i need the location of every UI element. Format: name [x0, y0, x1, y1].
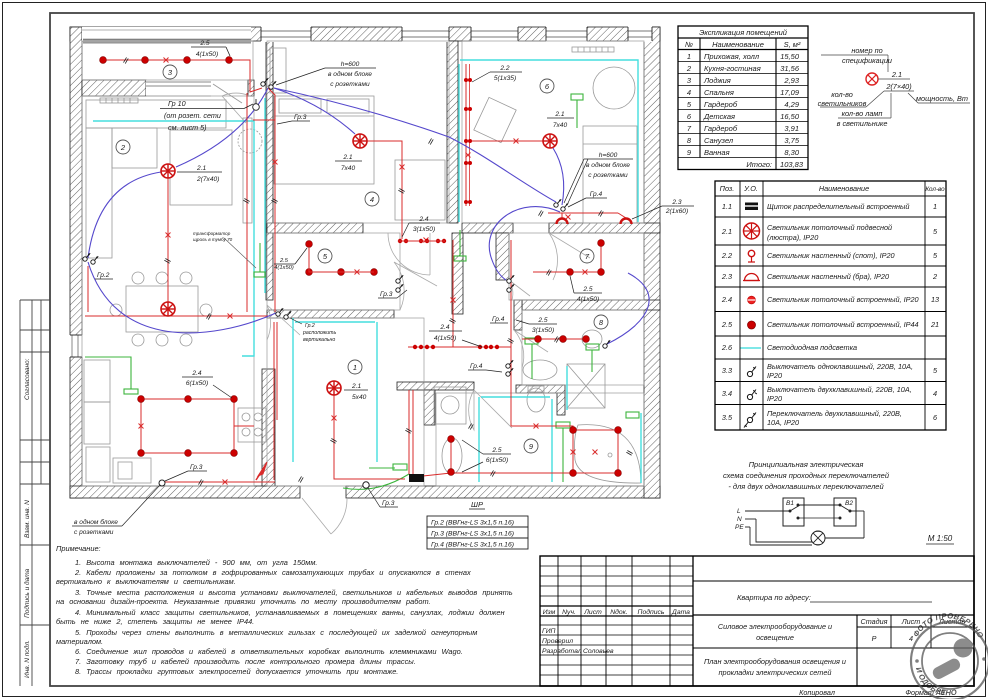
svg-text:- для двух одноклавишных перек: - для двух одноклавишных переключателей [728, 482, 884, 491]
door bottom balcony [302, 498, 347, 534]
svg-text:щроль в тумбу 70: щроль в тумбу 70 [193, 237, 233, 242]
svg-text:Копировал: Копировал [799, 688, 835, 697]
wire Gr2 riser room2 side [246, 93, 248, 312]
schematic lamp [811, 531, 825, 545]
svg-text:Гр 10: Гр 10 [168, 99, 186, 108]
lustre lamp room6 2.1 [543, 134, 557, 148]
svg-text:4. Минимальный класс защиты: 4. Минимальный класс защиты светильников… [75, 608, 505, 617]
switch pair left wall Gr.2 [83, 253, 90, 261]
svg-text:2.3: 2.3 [671, 199, 681, 206]
svg-text:Кол-во: Кол-во [925, 186, 945, 193]
legend symbol: downlight IP44 2.5 [748, 321, 756, 329]
arc sw-left to dining [88, 262, 276, 333]
led tv wall second strip [264, 98, 266, 293]
L N PE labels [735, 508, 744, 531]
svg-text:Гр.2: Гр.2 [305, 323, 315, 329]
arc room6 sw long S [489, 207, 560, 280]
wall rooms 4/6 [447, 41, 458, 223]
socket pairs room6 [398, 78, 499, 349]
svg-text:прокладки электрических сетей: прокладки электрических сетей [719, 668, 832, 677]
sofa room2 [86, 100, 226, 128]
junction circle kitchen [159, 480, 165, 486]
svg-text:Прихожая, холл: Прихожая, холл [704, 52, 760, 61]
svg-text:4(1х50): 4(1х50) [274, 265, 294, 271]
svg-text:Наименование: Наименование [819, 184, 869, 193]
svg-text:Стадия: Стадия [861, 617, 888, 626]
window left wall [70, 335, 82, 357]
switch box B2 [834, 498, 856, 526]
switch pair bath Gr.4 [506, 360, 513, 368]
door main hall gap [267, 305, 300, 340]
legend symbol: downlight IP20 2.4 [748, 296, 756, 304]
switches [83, 78, 610, 376]
wall washbasin/toilet [516, 385, 565, 393]
wire room9 rect [573, 430, 618, 473]
svg-text:3(1х50): 3(1х50) [413, 226, 435, 233]
arc sw-top to lustre room4 [274, 88, 355, 134]
svg-text:быть не ниже 2, степень защиты: быть не ниже 2, степень защиты не менее … [56, 617, 254, 626]
green tv lowvolt [259, 243, 261, 272]
svg-text:в одном блоке: в одном блоке [586, 161, 630, 169]
svg-text:4: 4 [370, 195, 374, 204]
svg-text:с розетками: с розетками [330, 81, 370, 88]
svg-text:2.1: 2.1 [554, 111, 564, 118]
svg-text:Выключатель двухклавишный, 220: Выключатель двухклавишный, 220В, 10А, [767, 385, 912, 394]
svg-text:Гр.2 (ВВГнг-LS 3х1,5 п.16): Гр.2 (ВВГнг-LS 3х1,5 п.16) [431, 520, 514, 527]
wire room6 lustre [470, 140, 543, 142]
left margin strip [20, 300, 50, 686]
svg-text:Спальня: Спальня [704, 88, 734, 97]
svg-text:h=600: h=600 [341, 61, 360, 68]
door room5 [394, 262, 437, 310]
wire gr2 vertical pair [273, 322, 275, 480]
junction circle hall [363, 482, 369, 488]
svg-text:Лист: Лист [583, 609, 602, 616]
wire room6 sconces [548, 212, 618, 214]
svg-text:2: 2 [120, 143, 126, 152]
svg-text:N: N [737, 516, 742, 523]
svg-text:Подпись и дата: Подпись и дата [23, 568, 31, 618]
led bath [478, 397, 480, 482]
green corridor [459, 230, 461, 256]
corner tub [574, 425, 641, 483]
svg-text:103,83: 103,83 [780, 160, 804, 169]
svg-text:см. лист 5): см. лист 5) [168, 123, 207, 132]
svg-text:Светильник потолочный встроенн: Светильник потолочный встроенный, IP44 [767, 320, 919, 329]
bed room4 [274, 96, 374, 184]
svg-text:2.1: 2.1 [891, 70, 902, 79]
wire left wall horizontal [85, 315, 270, 317]
switch pair room6 Gr.4 [554, 199, 561, 207]
svg-text:1.1: 1.1 [722, 202, 732, 211]
led room2 [93, 121, 254, 356]
wire room7 [533, 243, 601, 272]
green room9 [562, 428, 564, 482]
svg-text:(от розет. сети: (от розет. сети [164, 111, 221, 120]
svg-text:Изм: Изм [543, 609, 556, 616]
svg-text:2.5: 2.5 [279, 258, 289, 264]
svg-text:Принципиальная электрическая: Принципиальная электрическая [749, 460, 864, 469]
svg-text:на основании дизайн-проекта. Н: на основании дизайн-проекта. Неуказанные… [56, 597, 431, 606]
desk room6 [474, 97, 516, 142]
svg-text:10А, IP20: 10А, IP20 [767, 418, 799, 427]
svg-text:21: 21 [930, 320, 939, 329]
legend symbol: LED strip 2.6 [741, 347, 762, 349]
svg-text:4: 4 [909, 634, 913, 643]
legend symbol: 1-key switch 3.3 [747, 367, 756, 377]
svg-text:5(1х35): 5(1х35) [494, 75, 516, 82]
stamp camera icon [931, 639, 973, 681]
svg-text:2.5: 2.5 [582, 286, 592, 293]
svg-text:кол-во: кол-во [831, 90, 853, 99]
svg-text:2: 2 [686, 64, 692, 73]
wire room2 lustres [167, 178, 169, 302]
wall room4 bottom [267, 223, 363, 233]
svg-text:Гр.4: Гр.4 [492, 316, 505, 323]
wire Gr3 riser [268, 88, 275, 312]
stamp circles [911, 622, 988, 699]
svg-text:7х40: 7х40 [553, 122, 568, 129]
svg-text:Экспликация помещений: Экспликация помещений [699, 28, 788, 37]
wall right exterior [644, 27, 660, 498]
svg-text:8,30: 8,30 [784, 148, 799, 157]
svg-text:(люстра), IP20: (люстра), IP20 [767, 233, 818, 242]
wall room7/room8 [522, 300, 660, 310]
svg-text:8. Трассы прокладки групповых: 8. Трассы прокладки групповых электросет… [75, 667, 398, 676]
svg-text:Гр.2: Гр.2 [97, 272, 110, 279]
svg-text:трансформатор: трансформатор [193, 231, 231, 236]
svg-text:Соловьев: Соловьев [583, 648, 614, 655]
lustre lamp hall 2.1 [327, 381, 341, 395]
svg-text:спецификации: спецификации [842, 56, 892, 65]
wire kitchen island [141, 399, 234, 453]
switch pair room5 door [396, 275, 403, 283]
legend symbol: 2-key pass switch 3.5 [744, 413, 756, 428]
svg-text:Щиток распределительный встрое: Щиток распределительный встроенный [767, 202, 909, 211]
svg-text:с розетками: с розетками [74, 529, 114, 536]
svg-text:В1: В1 [786, 500, 794, 507]
svg-text:Силовое электрооборудование и: Силовое электрооборудование и [718, 622, 832, 631]
switch pair Gr.2 vertical [276, 308, 283, 316]
wall bath left [424, 390, 435, 425]
svg-text:7х40: 7х40 [341, 165, 356, 172]
legend table text [720, 184, 946, 427]
svg-text:31,56: 31,56 [780, 64, 800, 73]
wire 2.4 hall line [408, 346, 511, 348]
svg-text:3.4: 3.4 [722, 389, 732, 398]
svg-text:6(1х50): 6(1х50) [186, 380, 208, 387]
red arrow kitchen [258, 462, 267, 476]
svg-text:Гардероб: Гардероб [704, 124, 738, 133]
blue switch arcs [88, 88, 649, 344]
svg-text:2.4: 2.4 [721, 295, 732, 304]
svg-text:S, м²: S, м² [784, 40, 801, 49]
green wiring [85, 94, 639, 489]
svg-text:2.2: 2.2 [499, 65, 509, 72]
svg-text:Гр.4 (ВВГнг-LS 3х1,5 п.16): Гр.4 (ВВГнг-LS 3х1,5 п.16) [431, 542, 514, 549]
svg-text:2.1: 2.1 [342, 154, 352, 161]
svg-text:В2: В2 [845, 500, 853, 507]
svg-text:Примечание:: Примечание: [56, 544, 101, 553]
schematic contact dots [789, 504, 852, 520]
svg-text:вертикально к выключателям и с: вертикально к выключателям и светильника… [56, 577, 236, 586]
wall toilet right [557, 393, 565, 415]
stove [238, 408, 266, 442]
svg-text:2.4: 2.4 [418, 216, 428, 223]
svg-text:Гр.3: Гр.3 [294, 114, 307, 121]
svg-text:15,50: 15,50 [780, 52, 800, 61]
svg-text:2.4: 2.4 [191, 370, 201, 377]
schematic wires [745, 505, 864, 545]
svg-text:3. Точные места расположени: 3. Точные места расположения и высота ус… [75, 588, 513, 597]
green hall bottom [369, 467, 395, 469]
svg-text:Гр.3: Гр.3 [190, 464, 203, 471]
kitchen counter [84, 360, 110, 402]
svg-text:2.5: 2.5 [721, 320, 733, 329]
svg-text:2.1: 2.1 [721, 227, 732, 236]
svg-text:М 1:50: М 1:50 [928, 534, 953, 543]
svg-text:2(1х60): 2(1х60) [665, 208, 688, 215]
lustre lamp room4 2.1 [353, 134, 367, 148]
wall corridor/room7 [496, 233, 509, 280]
wire room4 lustre drop [367, 141, 402, 239]
svg-text:7. Заготовку труб и кабелей пр: 7. Заготовку труб и кабелей производить … [75, 657, 416, 666]
wall room5 bottom [267, 310, 394, 318]
svg-text:2.5: 2.5 [537, 317, 547, 324]
svg-text:1: 1 [933, 202, 937, 211]
wall stub room8 left [514, 300, 522, 330]
legend symbol: distribution board 1.1 [745, 203, 758, 211]
svg-text:6. Соединение жил проводов и к: 6. Соединение жил проводов и кабелей в о… [75, 647, 463, 656]
svg-text:Поз.: Поз. [720, 184, 735, 193]
towel oval room9 [442, 438, 462, 474]
svg-text:Кухня-гостиная: Кухня-гостиная [704, 64, 761, 73]
svg-text:13: 13 [931, 295, 939, 304]
title block left grid verticals [558, 556, 693, 686]
svg-text:h=600: h=600 [599, 152, 618, 159]
svg-text:PE: PE [735, 524, 744, 531]
svg-text:IP20: IP20 [767, 371, 782, 380]
washing machine [434, 387, 466, 424]
svg-text:освещение: освещение [756, 633, 794, 642]
wall left exterior [70, 27, 82, 498]
radiator room2 [100, 98, 138, 103]
title block outer [540, 556, 974, 686]
switch pair corridor pass [507, 275, 514, 283]
legend symbol: sconce 2.3 [743, 274, 760, 281]
svg-text:Гр.4: Гр.4 [590, 191, 603, 198]
dresser room4 [270, 48, 286, 93]
svg-text:4(1х50): 4(1х50) [434, 335, 456, 342]
svg-text:2.6: 2.6 [721, 343, 733, 352]
distribution board ShchR [409, 474, 424, 482]
sink [113, 458, 151, 483]
red wiring network [85, 60, 626, 482]
green kitchen [85, 357, 131, 389]
title block right part dividers [693, 581, 974, 686]
svg-text:1. Высота монтажа выключателей: 1. Высота монтажа выключателей - 900 мм,… [75, 558, 317, 567]
title header row text [542, 608, 690, 655]
svg-text:в одном блоке: в одном блоке [74, 518, 118, 526]
wire long top link [253, 119, 275, 121]
lustre lamp dining 2.1 [161, 302, 175, 316]
wire room8 [522, 338, 586, 340]
arc bath [607, 273, 649, 344]
svg-text:4(1х50): 4(1х50) [577, 296, 599, 303]
lustre lamp room2 2.1 [161, 164, 175, 178]
svg-text:№: № [685, 40, 693, 49]
wall bath top [397, 382, 474, 390]
annotation text [818, 46, 968, 128]
dining table [126, 286, 198, 332]
green room9 right [626, 412, 639, 418]
svg-text:2.5: 2.5 [199, 40, 209, 47]
svg-text:5. Проходы через стены вып: 5. Проходы через стены выполнить в метал… [75, 628, 477, 637]
svg-text:3.3: 3.3 [722, 366, 732, 375]
svg-text:2: 2 [932, 272, 937, 281]
svg-text:3.5: 3.5 [722, 413, 733, 422]
svg-text:2.1: 2.1 [351, 383, 361, 390]
wire riser pair [408, 390, 410, 474]
svg-text:3,91: 3,91 [784, 124, 799, 133]
svg-text:4(1х50): 4(1х50) [196, 51, 218, 58]
svg-text:Санузел: Санузел [704, 136, 734, 145]
door room7 small [509, 280, 530, 300]
sink room8 [582, 330, 602, 348]
room number circles [116, 65, 608, 453]
svg-text:кол-во ламп: кол-во ламп [842, 109, 883, 118]
svg-text:2,93: 2,93 [783, 76, 799, 85]
title block left grid horizontals [540, 566, 693, 675]
stamp dots [915, 659, 919, 663]
svg-text:Разработал: Разработал [542, 647, 582, 655]
wardrobe room4 [395, 160, 445, 220]
switch room8 [603, 340, 610, 348]
wire room5 L [309, 248, 374, 272]
svg-text:Р: Р [872, 634, 877, 643]
plant [238, 129, 262, 153]
wall corridor central [452, 233, 463, 314]
left strip labels [23, 358, 31, 678]
svg-text:в светильнике: в светильнике [837, 119, 888, 128]
door room6-7 [549, 233, 590, 280]
svg-text:2.1: 2.1 [196, 165, 206, 172]
svg-text:расположить: расположить [302, 330, 336, 336]
bell symbol Gr10 [253, 104, 260, 111]
door balcony [222, 93, 250, 123]
svg-text:Проверил: Проверил [542, 638, 573, 645]
legend symbol: 2-key switch 3.4 [747, 390, 756, 400]
wire central riser [452, 240, 454, 347]
washbasin hall [523, 360, 557, 380]
svg-text:Nдок.: Nдок. [610, 608, 628, 616]
svg-text:Итого:: Итого: [746, 160, 772, 169]
door arcs [222, 93, 590, 534]
svg-text:2. Кабели проложены за пот: 2. Кабели проложены за потолком в гофрир… [74, 568, 471, 577]
arc sw-top to lustre room2 crossing [176, 88, 268, 167]
arc sw-top long to pass switch [274, 88, 556, 202]
switch pair h=600 top [261, 78, 268, 86]
svg-text:У.О.: У.О. [743, 184, 758, 193]
svg-text:4: 4 [687, 88, 691, 97]
svg-text:Светодиодная подсветка: Светодиодная подсветка [767, 343, 857, 352]
below frame: Копировал / Формат [799, 688, 945, 697]
door room4 [388, 233, 430, 275]
led hall [292, 318, 294, 462]
svg-text:светильников: светильников [818, 99, 867, 108]
tv console [243, 118, 252, 223]
svg-text:Переключатель двухклавишный, 2: Переключатель двухклавишный, 220В, [767, 409, 902, 418]
cable group table [427, 516, 528, 549]
explication table text [685, 28, 804, 169]
svg-text:Гр.3: Гр.3 [382, 500, 395, 507]
svg-text:вертикально: вертикально [303, 337, 335, 343]
svg-text:Ванная: Ванная [704, 148, 730, 157]
svg-text:Лист: Лист [901, 617, 921, 626]
svg-text:Выключатель одноклавишный, 220: Выключатель одноклавишный, 220В, 10А, [767, 362, 913, 371]
toilet [527, 388, 545, 412]
bed room6 [583, 126, 637, 223]
svg-text:материалом.: материалом. [56, 637, 103, 646]
svg-text:17,09: 17,09 [780, 88, 800, 97]
svg-text:Детская: Детская [703, 112, 735, 121]
svg-text:Гардероб: Гардероб [704, 100, 738, 109]
svg-text:2.2: 2.2 [721, 251, 732, 260]
svg-text:в одном блоке: в одном блоке [328, 70, 372, 78]
arc room6 sw to lustre [553, 148, 564, 205]
svg-text:5х40: 5х40 [352, 394, 367, 401]
room outline thin lines [82, 41, 644, 486]
svg-text:2(7х40): 2(7х40) [196, 176, 219, 183]
explication table grid [678, 26, 808, 170]
furniture [84, 47, 641, 483]
svg-text:Светильник настенный (бра), IP: Светильник настенный (бра), IP20 [767, 272, 889, 281]
svg-text:16,50: 16,50 [780, 112, 800, 121]
wire island to stove [234, 425, 254, 427]
svg-text:IP20: IP20 [767, 394, 782, 403]
chair circle room6 [593, 67, 635, 109]
svg-text:номер по: номер по [851, 46, 882, 55]
arc sw-left to lustre room2 [88, 172, 161, 258]
door balcony leaf [213, 84, 242, 103]
door hall-bath [469, 390, 512, 430]
wall main vertical upper [266, 29, 273, 300]
project name [704, 622, 846, 677]
LED strip cyan lines [93, 60, 641, 483]
window balcony-room2 [146, 80, 211, 96]
downlights [100, 57, 622, 477]
svg-text:2.3: 2.3 [721, 272, 732, 281]
walls [69, 27, 660, 498]
wire kitchen bottom [165, 481, 275, 483]
red X marks [139, 58, 598, 485]
svg-text:Квартира по адресу:: Квартира по адресу: [737, 593, 811, 602]
wall balcony separator [82, 80, 146, 96]
green room8 right [591, 350, 593, 372]
svg-text:Светильник настенный (спот), I: Светильник настенный (спот), IP20 [767, 251, 895, 260]
svg-text:Инв. N подл.: Инв. N подл. [23, 640, 31, 678]
shower [567, 364, 605, 408]
annotation leader lines [820, 55, 970, 118]
switch box B1 [783, 498, 804, 526]
green room8 left [531, 344, 533, 379]
wire room9 left riser [423, 473, 451, 476]
svg-text:Светильник потолочный подвесно: Светильник потолочный подвесной [767, 223, 892, 232]
svg-text:схема соединения проходных пер: схема соединения проходных переключателе… [723, 471, 890, 480]
svg-text:2(7×40): 2(7×40) [885, 82, 911, 91]
stamp text [911, 611, 985, 697]
svg-text:ШР: ШР [471, 500, 483, 509]
